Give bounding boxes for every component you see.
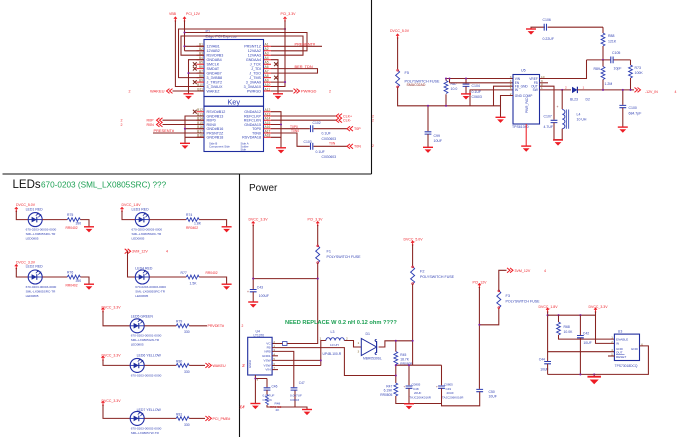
power flag DVCC_3.3V (LED5) — [102, 308, 105, 313]
svg-text:WAKEZ: WAKEZ — [207, 89, 221, 93]
ground under C43 — [248, 302, 258, 308]
svg-text:3_3VAA10: 3_3VAA10 — [244, 85, 261, 89]
power flag DVCC_1.8V — [546, 308, 549, 313]
svg-text:C0G0603: C0G0603 — [322, 137, 337, 141]
connector pin stubs — [197, 46, 272, 137]
fuse F5 — [396, 69, 400, 88]
svg-text:A2: A2 — [265, 47, 269, 51]
svg-text:GNDAB4: GNDAB4 — [207, 58, 222, 62]
wire 3VM_12V to LED4 — [128, 251, 136, 277]
svg-text:GNDAB7: GNDAB7 — [207, 71, 222, 75]
node WAKEU to pin B11 — [173, 90, 205, 92]
node BER_TDN loop pins A6-A7 — [271, 69, 318, 74]
regulator U5 (TPS61040) body — [513, 75, 540, 125]
LED LED7 — [130, 411, 144, 425]
svg-text:2: 2 — [565, 86, 567, 90]
svg-text:670-0203-00003-0000: 670-0203-00003-0000 — [132, 228, 163, 232]
svg-text:R88: R88 — [608, 34, 614, 38]
wire feedback row with C105 — [587, 59, 631, 61]
svg-text:670-0203-00002-0000: 670-0203-00002-0000 — [131, 427, 162, 431]
node -12V_IN — [635, 88, 641, 93]
junction lower B-gnd — [184, 128, 186, 130]
capacitor C105 — [611, 57, 613, 64]
svg-text:+: + — [557, 105, 559, 109]
wire PCI_3.3V to fuse F1 — [317, 225, 319, 246]
svg-text:Key: Key — [227, 97, 240, 106]
svg-text:2: 2 — [372, 144, 374, 148]
svg-text:A3: A3 — [265, 52, 269, 56]
svg-text:C102: C102 — [313, 121, 321, 125]
ground (left lower) — [180, 143, 190, 149]
svg-text:670-0203-00003-0000: 670-0203-00003-0000 — [135, 285, 166, 289]
node 3VM_12V (power sect) — [507, 268, 513, 273]
svg-text:U3: U3 — [618, 329, 623, 333]
svg-text:3_3VAA9: 3_3VAA9 — [246, 80, 261, 84]
junction PCI_3.3V loop — [284, 28, 286, 30]
svg-text:MBR0530SL: MBR0530SL — [363, 357, 382, 361]
capacitor C49 (tantalum) — [438, 386, 445, 388]
svg-text:100UF: 100UF — [259, 294, 269, 298]
svg-text:SW: SW — [533, 88, 538, 92]
svg-text:C43: C43 — [257, 285, 263, 289]
svg-text:BER_TDN: BER_TDN — [295, 64, 313, 69]
svg-text:A1: A1 — [265, 43, 269, 47]
svg-text:4: 4 — [544, 269, 546, 273]
svg-text:SMDAT: SMDAT — [207, 67, 220, 71]
no-connect X on A5 — [274, 62, 278, 66]
svg-text:330: 330 — [184, 423, 190, 427]
svg-text:T0P: T0P — [354, 127, 361, 131]
svg-text:T0N: T0N — [329, 141, 336, 145]
wire pin A16 to C102 — [271, 128, 310, 130]
inductor L4 — [561, 90, 563, 109]
wire LED3 to resistor — [149, 219, 186, 221]
node R0N to pin B15 — [163, 124, 205, 126]
svg-text:DVCC_3.3V: DVCC_3.3V — [102, 305, 122, 309]
svg-text:OUT: OUT — [616, 351, 623, 355]
capacitor C106 — [544, 24, 546, 31]
svg-text:C0805: C0805 — [444, 382, 453, 386]
wire DVCC_5.0V to fuse F2 — [412, 245, 414, 267]
svg-text:C103: C103 — [304, 140, 312, 144]
junction PCI_12V/B1 — [183, 45, 185, 47]
svg-text:670-0203-00002-0000: 670-0203-00002-0000 — [131, 374, 162, 378]
svg-text:TAJC206K016R: TAJC206K016R — [442, 395, 464, 399]
resistor R74 — [186, 218, 199, 222]
LED LED2 — [28, 270, 42, 284]
node 3VM_12V (input to LED4) — [125, 249, 131, 254]
wire PCI_3.3V loop over connector to pin B8 — [179, 29, 286, 78]
wire flag to LED6 — [103, 360, 130, 366]
svg-text:B9: B9 — [199, 78, 203, 82]
svg-text:Side: Side — [241, 148, 247, 152]
svg-text:C99: C99 — [434, 134, 440, 138]
svg-text:R76: R76 — [67, 271, 73, 275]
wire R77 to ground — [199, 277, 226, 284]
svg-text:PCI_12V: PCI_12V — [473, 280, 488, 284]
svg-text:DVCC_1.8V: DVCC_1.8V — [539, 305, 559, 309]
svg-text:R45: R45 — [400, 353, 406, 357]
svg-text:RR0805: RR0805 — [380, 393, 392, 397]
svg-text:RESET: RESET — [616, 355, 626, 359]
svg-text:1.5K: 1.5K — [190, 282, 198, 286]
capacitor C43 — [250, 290, 257, 292]
svg-text:RSVD#A18: RSVD#A18 — [242, 136, 261, 140]
wire PCI_3.3V rail to pins A9,A10 — [271, 21, 285, 87]
svg-text:IN: IN — [515, 88, 519, 92]
section border: top-left quadrant box — [3, 0, 372, 174]
ground (LED1) — [84, 227, 94, 233]
svg-text:A9: A9 — [265, 78, 269, 82]
svg-text:WAKEU: WAKEU — [213, 364, 226, 368]
diode D2 (BL23 schottky) — [572, 87, 577, 93]
wire R68 to U3 ENABLE — [559, 335, 615, 339]
svg-text:PWR_PAD: PWR_PAD — [525, 97, 529, 113]
wire LED7 to resistor R81 — [144, 417, 176, 419]
resistor R77 — [186, 275, 199, 279]
svg-text:J_TDI: J_TDI — [251, 67, 261, 71]
node CLK- from pin A14 — [271, 119, 336, 121]
svg-text:RR0402: RR0402 — [66, 284, 78, 288]
svg-text:C107: C107 — [544, 114, 552, 118]
svg-text:SML-LX0805SRC-TR: SML-LX0805SRC-TR — [135, 290, 166, 294]
wire resistor to net — [189, 325, 207, 327]
svg-text:2: 2 — [243, 364, 245, 368]
ground under C48 — [404, 404, 414, 410]
no-connect X on B5 — [193, 62, 197, 66]
svg-text:10UF: 10UF — [434, 139, 443, 143]
ground left of C106 — [526, 29, 536, 35]
svg-text:6: 6 — [510, 86, 512, 90]
svg-text:F3: F3 — [506, 294, 510, 298]
svg-text:GNDAA4: GNDAA4 — [246, 58, 261, 62]
svg-text:C50: C50 — [489, 390, 495, 394]
svg-text:C0603: C0603 — [263, 398, 272, 402]
wire U5 GND pin to ground — [501, 96, 514, 118]
svg-text:UP4B-100-R: UP4B-100-R — [323, 352, 342, 356]
svg-text:LT1370: LT1370 — [254, 333, 265, 337]
svg-text:2: 2 — [121, 123, 123, 127]
resistor R47 — [394, 383, 398, 396]
ground (LED4) — [222, 284, 232, 290]
svg-text:R80: R80 — [176, 360, 182, 364]
svg-text:RR0402: RR0402 — [66, 226, 78, 230]
svg-text:DVCC_3.3V: DVCC_3.3V — [102, 354, 122, 358]
resistor R89 — [602, 60, 604, 67]
wire 5V bus — [398, 86, 513, 131]
svg-text:-12V_IN: -12V_IN — [645, 90, 658, 94]
svg-text:DVCC_3.3V: DVCC_3.3V — [589, 305, 609, 309]
capacitor C99 — [425, 132, 432, 134]
node PRESENT# to pin B17 — [153, 132, 204, 134]
svg-text:330: 330 — [184, 370, 190, 374]
svg-text:10.0K: 10.0K — [564, 330, 574, 334]
svg-text:2: 2 — [329, 89, 331, 93]
svg-text:390: 390 — [76, 222, 82, 226]
wire R45 to output rail — [396, 365, 442, 386]
wire flag to LED5 — [103, 311, 130, 326]
svg-text:R79: R79 — [176, 319, 182, 323]
power flag PCI_3.3V (power sect) — [316, 222, 319, 227]
svg-text:PCI_3.3V: PCI_3.3V — [281, 12, 297, 16]
wire LED4 to resistor R77 — [149, 276, 186, 278]
svg-text:1: 1 — [358, 341, 360, 345]
svg-text:GND: GND — [631, 347, 639, 351]
svg-text:390: 390 — [76, 279, 82, 283]
svg-text:BL23: BL23 — [570, 98, 578, 102]
svg-text:3: 3 — [358, 350, 360, 354]
svg-text:LED3 RED: LED3 RED — [132, 207, 150, 211]
junction bus/C99 — [427, 105, 429, 107]
node CLK+ from pin A13 — [271, 115, 336, 117]
svg-text:C0603: C0603 — [290, 398, 299, 402]
svg-text:T0N: T0N — [354, 145, 361, 149]
svg-text:670-0203 (SML_LX0805SRC) ???: 670-0203 (SML_LX0805SRC) ??? — [41, 181, 167, 190]
resistor R79 — [176, 324, 189, 328]
connector P1 (Edge PCI Express) body — [204, 40, 264, 97]
regulator U3 (TPS73018DCQ) body — [614, 334, 639, 360]
ground under U5 — [521, 146, 531, 152]
svg-text:1: 1 — [320, 336, 322, 340]
power flag PCI_12V — [478, 284, 481, 289]
wire F3 up to node 3VM_12V — [499, 270, 507, 290]
svg-text:A8: A8 — [265, 74, 269, 78]
wire A-side ground to pin A4 — [271, 60, 278, 94]
svg-text:A11: A11 — [265, 87, 271, 91]
svg-text:SML-LX0805GW-TR: SML-LX0805GW-TR — [131, 338, 160, 342]
svg-text:C106: C106 — [543, 18, 551, 22]
capacitor C104 — [463, 84, 470, 86]
svg-text:POLYSWITCH FUSE: POLYSWITCH FUSE — [506, 299, 541, 303]
svg-text:L3: L3 — [331, 330, 335, 334]
svg-text:C46: C46 — [272, 384, 278, 388]
svg-text:PWRGD: PWRGD — [301, 88, 316, 93]
wire pin A17 to C103 — [271, 133, 310, 146]
resistor R81 — [176, 417, 189, 421]
power flag DVCC_5.0V (power sect) — [411, 241, 414, 246]
svg-text:RR0402: RR0402 — [186, 226, 198, 230]
svg-text:PRESENT#: PRESENT# — [154, 128, 175, 133]
power flag DVCC_1.8V (LED3) — [121, 207, 124, 212]
svg-text:C47: C47 — [299, 381, 305, 385]
svg-text:4.7UF: 4.7UF — [544, 125, 554, 129]
wire F2 down to D1 output node — [412, 284, 414, 365]
wire F1 down to U4 VC node — [287, 263, 318, 344]
svg-text:2: 2 — [372, 119, 374, 123]
power flag VBB — [174, 17, 177, 22]
capacitor C47 — [293, 379, 295, 388]
wire DVCC_5.0V to fuse F5 — [397, 38, 399, 70]
no-connect X on B6 — [193, 67, 197, 71]
resistor R87 — [444, 81, 448, 94]
svg-text:A5: A5 — [265, 61, 269, 65]
diode D1 (MBR0530SL) — [361, 339, 376, 356]
resistor R76 — [67, 275, 80, 279]
wire U5 pad to ground — [525, 124, 527, 146]
svg-text:T0N0: T0N0 — [291, 129, 299, 133]
svg-text:SMAC02AD: SMAC02AD — [407, 83, 426, 87]
svg-text:10UF: 10UF — [583, 341, 591, 345]
svg-text:LED0805: LED0805 — [26, 237, 39, 241]
svg-text:POLYSWITCH FUSE: POLYSWITCH FUSE — [420, 275, 455, 279]
ground under U3 — [593, 374, 595, 376]
power flag DVCC_5.0V (LED1) — [15, 207, 18, 212]
svg-text:PCI_3.3V: PCI_3.3V — [308, 218, 324, 222]
svg-text:12VAA3: 12VAA3 — [248, 54, 261, 58]
svg-text:LED0805: LED0805 — [131, 343, 144, 347]
svg-text:R0N: R0N — [147, 123, 155, 127]
svg-text:12VAA2: 12VAA2 — [248, 49, 261, 53]
ground (right upper) — [273, 94, 283, 100]
wire U4 FB to divider — [272, 348, 396, 376]
svg-text:U5: U5 — [521, 69, 526, 73]
power flag DVCC_3.3V (U3) — [594, 308, 597, 313]
svg-text:L4: L4 — [577, 112, 581, 116]
svg-text:DVCC_5.0V: DVCC_5.0V — [404, 237, 424, 241]
svg-text:R89: R89 — [594, 67, 600, 71]
wire VIN row — [446, 79, 513, 84]
wire resistor to ground — [80, 277, 89, 284]
svg-text:10 UH: 10 UH — [330, 343, 339, 347]
svg-text:10pF: 10pF — [614, 67, 622, 71]
svg-text:Power: Power — [249, 183, 278, 194]
svg-text:F1: F1 — [327, 250, 331, 254]
ground under U4 — [250, 404, 260, 410]
svg-text:1.8K: 1.8K — [194, 222, 202, 226]
svg-text:C100: C100 — [629, 106, 637, 110]
svg-text:PCI_12V: PCI_12V — [186, 12, 201, 16]
junction bus/R87 — [445, 105, 447, 107]
svg-text:PRVDET#: PRVDET# — [208, 324, 225, 328]
svg-text:NEED REPLACE W 0.2 nH 0.12 ohm: NEED REPLACE W 0.2 nH 0.12 ohm ???? — [285, 320, 397, 326]
wire flag to LED1 — [16, 211, 28, 220]
svg-text:PRESENT#: PRESENT# — [295, 42, 316, 47]
wire B-side ground net — [189, 60, 205, 94]
svg-text:NFB: NFB — [264, 350, 270, 354]
svg-text:WAKEU: WAKEU — [150, 88, 165, 93]
wire resistor to ground — [199, 220, 226, 227]
svg-text:4: 4 — [166, 250, 168, 254]
capacitor C42 — [579, 315, 581, 335]
wire output row -12V — [577, 89, 634, 91]
svg-text:DVCC_3.3V: DVCC_3.3V — [249, 218, 269, 222]
svg-text:J_TCK: J_TCK — [250, 63, 262, 67]
node PWRGD from pin A11 — [271, 90, 293, 92]
svg-text:TPS73018DCQ: TPS73018DCQ — [615, 364, 638, 368]
svg-text:VSW: VSW — [264, 359, 271, 363]
ferrite bead at U4 VC — [283, 342, 288, 346]
fuse F3 — [497, 290, 501, 309]
wire PCI_12V to pins B1,B2 — [185, 21, 205, 51]
LED LED3 — [135, 213, 149, 227]
wire LED2 to resistor — [42, 276, 67, 278]
svg-text:0.1UF: 0.1UF — [472, 90, 482, 94]
wire A-side lower ground net — [271, 112, 281, 148]
node R0P to pin B14 — [163, 119, 205, 121]
svg-text:1.2M: 1.2M — [605, 82, 613, 86]
wire DVCC_3.3V down to C43 node — [253, 225, 318, 289]
LED LED1 — [28, 213, 42, 227]
resistor R88 — [602, 27, 604, 33]
capacitor C103 — [311, 143, 313, 150]
power flag DVCC_3.3V (LED6) — [102, 356, 105, 361]
junction loop/PCI_12V — [183, 31, 185, 33]
wire U4 VSW pins to L3 — [272, 341, 326, 366]
LED LED5 — [130, 319, 144, 333]
ground/C106 branch — [531, 27, 603, 28]
svg-text:0.22UF: 0.22UF — [543, 37, 554, 41]
capacitor C100 — [622, 90, 624, 105]
wire flag to LED2 — [16, 268, 28, 277]
svg-text:A6: A6 — [265, 65, 269, 69]
wire OUT to C107 — [540, 86, 555, 120]
svg-text:LED2 RED: LED2 RED — [26, 265, 44, 269]
svg-text:PWRGD: PWRGD — [247, 89, 261, 93]
capacitor C44 — [547, 352, 549, 361]
wire VBB to pin B10 — [175, 21, 204, 87]
svg-text:IN: IN — [616, 342, 619, 346]
wire DVCC_1.8V to U3 OUT — [548, 312, 615, 352]
capacitor C107 — [551, 120, 558, 122]
wire LED5 to resistor — [144, 325, 176, 327]
svg-text:PRSNT1Z: PRSNT1Z — [244, 45, 262, 49]
svg-text:4: 4 — [675, 90, 677, 94]
svg-text:F5: F5 — [405, 71, 409, 75]
svg-text:100K: 100K — [635, 71, 644, 75]
capacitor C50 — [476, 389, 483, 391]
svg-text:330: 330 — [184, 330, 190, 334]
svg-text:VIN: VIN — [265, 368, 270, 372]
wire LED6 to resistor R80 — [144, 364, 176, 366]
svg-text:R81: R81 — [176, 413, 182, 417]
wire U4 gnd pin to ground — [255, 375, 267, 403]
ground (left upper) — [184, 94, 194, 100]
svg-text:J_TRST2: J_TRST2 — [207, 80, 223, 84]
svg-text:12VAB2: 12VAB2 — [207, 49, 220, 53]
svg-text:C44: C44 — [539, 357, 545, 361]
svg-text:DVCC_5.0V: DVCC_5.0V — [390, 29, 410, 33]
svg-text:10 UH: 10 UH — [577, 118, 587, 122]
resistor R80 — [176, 364, 189, 368]
svg-text:1: 1 — [583, 86, 585, 90]
wire PCI_12V loop over connector to pin A2 — [185, 33, 308, 51]
regulator U4 (LT1370) body — [248, 337, 272, 375]
svg-text:B5: B5 — [199, 61, 203, 65]
junction B-gnd — [187, 72, 189, 74]
svg-text:PCI_PME#: PCI_PME# — [213, 417, 231, 421]
wire VREF to feedback node — [540, 60, 587, 79]
wire U4 GND1 stub — [272, 355, 278, 357]
power flag DVCC_3.3V (power sect) — [252, 222, 255, 227]
svg-text:2: 2 — [129, 89, 131, 93]
ground (right lower) — [276, 148, 286, 154]
svg-text:A4: A4 — [265, 56, 269, 60]
svg-text:SML-LX0805SRC-TR: SML-LX0805SRC-TR — [26, 289, 57, 293]
power flag PCI_12V — [183, 17, 186, 22]
fuse F1 — [316, 245, 320, 264]
svg-text:LED1 RED: LED1 RED — [26, 207, 44, 211]
svg-text:GND#B18: GND#B18 — [207, 136, 224, 140]
svg-text:R75: R75 — [67, 213, 73, 217]
wire U4 NFB down — [272, 351, 294, 378]
svg-text:A10: A10 — [265, 83, 271, 87]
svg-text:C0805: C0805 — [412, 382, 421, 386]
resistor R48 — [265, 395, 268, 405]
wire FB stub — [540, 82, 549, 84]
inductor L3 — [326, 338, 344, 341]
svg-text:SMCLK: SMCLK — [207, 63, 220, 67]
svg-text:20UF: 20UF — [414, 391, 422, 395]
